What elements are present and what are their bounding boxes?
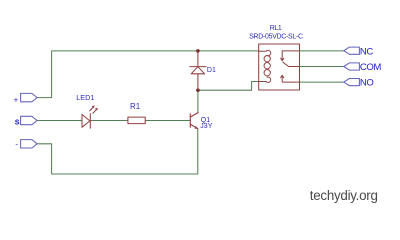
terminal -: [21, 140, 37, 148]
svg-text:SRD-05VDC-SL-C: SRD-05VDC-SL-C: [249, 34, 303, 41]
wire : R1 to Q1 base: [145, 120, 190, 122]
svg-text:R1: R1: [130, 102, 141, 111]
svg-text:techydiy.org: techydiy.org: [310, 188, 378, 203]
svg-text:D1: D1: [207, 67, 216, 74]
LED LED1: [82, 106, 98, 129]
svg-text:LED1: LED1: [76, 93, 94, 102]
svg-text:+: +: [14, 96, 19, 105]
diode D1 (flyback): [190, 52, 206, 90]
svg-text:RL1: RL1: [270, 25, 282, 32]
svg-text:-: -: [15, 140, 18, 149]
terminal NO: [344, 79, 360, 86]
relay RL1 coil: [259, 50, 271, 82]
resistor R1: [128, 117, 145, 124]
svg-text:COM: COM: [360, 62, 381, 73]
wire : LED cathode to R1: [90, 120, 128, 122]
svg-text:s: s: [15, 116, 20, 126]
relay RL1 COM pin: [289, 66, 300, 68]
wire net NC: [300, 50, 344, 52]
wire net NO: [300, 81, 344, 83]
transistor Q1 (NPN): [190, 113, 198, 129]
relay RL1 contact blade: [283, 62, 289, 66]
wire net - : Q1 emitter to terminal: [37, 129, 198, 174]
junction node at D1 anode / collector: [196, 88, 200, 92]
svg-text:J3Y: J3Y: [200, 123, 212, 130]
terminal S: [21, 116, 37, 124]
relay RL1 contact NC pin: [281, 51, 300, 61]
relay RL1 box: [259, 44, 300, 90]
terminal NC: [344, 47, 360, 54]
svg-text:NO: NO: [360, 78, 374, 89]
svg-text:NC: NC: [360, 46, 373, 57]
wire net + : terminal to relay coil pin 1: [37, 51, 259, 98]
wire net S : terminal to LED anode: [36, 120, 82, 122]
relay RL1 contact NO pin: [281, 75, 300, 82]
junction node at D1 cathode / top rail: [196, 49, 200, 53]
wire : D1 anode node to relay coil pin 2: [198, 82, 259, 91]
wire net COM: [300, 66, 344, 68]
terminal +: [21, 93, 37, 101]
wire : collector riser to D1 anode node: [197, 90, 199, 112]
terminal COM: [344, 63, 360, 70]
